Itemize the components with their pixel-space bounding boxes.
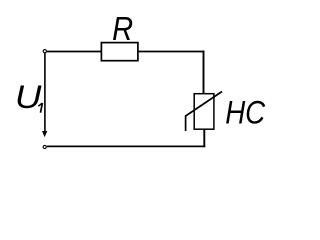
thermistor HC body [194, 94, 214, 130]
terminal: top-left input [43, 50, 46, 53]
wire: resistor R to corner [139, 51, 205, 53]
thermistor HC diagonal stroke [186, 92, 222, 132]
wire: HC bottom pin [203, 130, 205, 147]
resistor R [101, 43, 137, 61]
terminal: bottom-left input [43, 145, 46, 148]
voltage arrow U1 (shaft) [44, 53, 46, 132]
wire: bottom return [47, 145, 205, 147]
svg-text:R: R [112, 10, 133, 47]
wire: top terminal to resistor R [47, 51, 101, 53]
wire: top-right corner down to HC top pin [203, 51, 205, 94]
svg-text:U: U [15, 79, 42, 115]
svg-text:HC: HC [225, 94, 265, 130]
voltage arrow U1 (head) [42, 131, 47, 137]
